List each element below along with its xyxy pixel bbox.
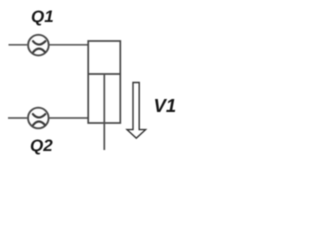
wire Q2 to block — [49, 117, 88, 119]
wire Q1 to block — [50, 44, 89, 46]
svg-text:Q2: Q2 — [30, 136, 53, 155]
wire Q2 left stub — [8, 117, 27, 119]
wire block centre vertical — [103, 74, 105, 150]
block divider line — [88, 73, 120, 75]
wire Q1 left stub — [9, 44, 28, 46]
svg-text:Q1: Q1 — [31, 7, 54, 26]
source Q2 — [28, 108, 49, 129]
block outer rectangle — [88, 41, 120, 123]
svg-text:V1: V1 — [154, 95, 177, 116]
arrow V1 — [127, 83, 146, 139]
source Q1 — [28, 35, 49, 56]
